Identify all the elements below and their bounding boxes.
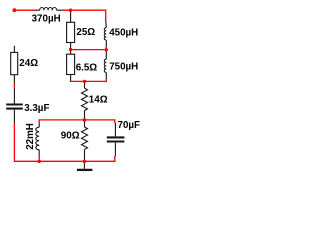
wire 450uH bottom stub (105, 47, 107, 50)
node junction top at 25ohm (69, 9, 72, 12)
wire node3 horizontal y=81.4 with corners (71, 79, 107, 82)
resistor R5 24ohm leads (13, 46, 15, 83)
wire top-left from terminal to inductor L1 (14, 9, 35, 11)
inductor L2 450uH coil (104, 28, 106, 40)
resistor R1 25ohm box (67, 22, 75, 42)
svg-text:24Ω: 24Ω (19, 58, 38, 69)
resistor R2 6.5ohm leads (70, 50, 72, 81)
inductor L1 370uH leads (35, 9, 63, 11)
capacitor C1 3.3uF plates (6, 105, 23, 109)
resistor R2 6.5ohm box (67, 54, 75, 74)
svg-text:370µH: 370µH (32, 13, 61, 24)
inductor L3 750uH coil (104, 59, 106, 72)
resistor R1 25ohm leads (70, 11, 72, 49)
ground lead (83, 162, 85, 169)
node junction 450uH bottom (105, 48, 108, 51)
svg-text:70µF: 70µF (118, 120, 141, 131)
resistor R4 90ohm zigzag (82, 127, 88, 149)
resistor R3 14ohm leads (84, 82, 86, 120)
ground bar (77, 169, 93, 171)
inductor L2 450uH leads (105, 20, 108, 47)
node junction bottom rail at 22mH (38, 160, 41, 163)
node junction bottom rail at ground (83, 160, 86, 163)
wire bottom rail (14, 123, 114, 162)
wire node2 horizontal y=49.6 (71, 49, 107, 51)
wire between 24ohm and 3.3uF (13, 83, 15, 89)
svg-text:3.3µF: 3.3µF (24, 103, 49, 114)
node junction y81 at 14ohm top (83, 80, 86, 83)
inductor L1 370uH coil (40, 7, 57, 10)
svg-text:750µH: 750µH (109, 61, 138, 72)
svg-text:450µH: 450µH (109, 28, 138, 39)
capacitor C2 70uF plates (107, 137, 125, 141)
wire top-right from inductor to right column corner (63, 10, 106, 20)
resistor R5 24ohm box (11, 52, 18, 74)
resistor R4 90ohm leads (84, 121, 86, 161)
inductor L4 22mH leads (38, 124, 40, 156)
wire middle horizontal y=119.9 (39, 120, 115, 124)
svg-text:25Ω: 25Ω (76, 27, 95, 38)
node junction 25ohm bottom (69, 48, 72, 51)
node terminal dot top-left (13, 8, 17, 12)
inductor L4 22mH coil (36, 127, 39, 150)
svg-text:14Ω: 14Ω (89, 95, 108, 106)
svg-text:22mH: 22mH (25, 123, 36, 150)
capacitor C1 3.3uF leads (13, 88, 15, 123)
node junction middle rail at 90ohm (83, 118, 86, 121)
svg-text:6.5Ω: 6.5Ω (76, 63, 98, 74)
capacitor C2 70uF leads (114, 123, 116, 156)
resistor R3 14ohm zigzag (82, 88, 88, 110)
svg-text:90Ω: 90Ω (61, 130, 80, 141)
wire 22mH bottom stub (38, 155, 40, 161)
inductor L3 750uH leads (105, 51, 107, 79)
